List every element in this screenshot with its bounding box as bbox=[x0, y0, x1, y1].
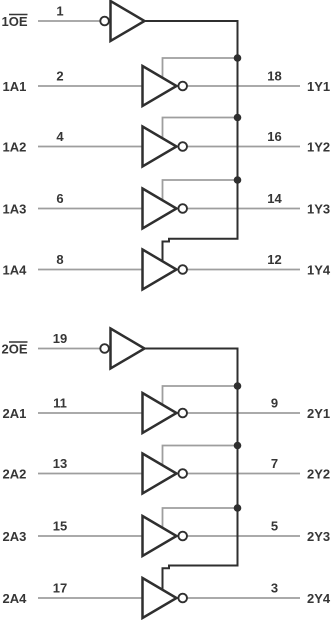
wire 1Y2 output (pin 16) bbox=[187, 146, 300, 148]
svg-text:18: 18 bbox=[267, 69, 281, 84]
svg-text:16: 16 bbox=[267, 129, 281, 144]
svg-text:19: 19 bbox=[53, 331, 67, 346]
wire 2A3 input (pin 15) bbox=[38, 535, 143, 537]
junction on enable rail (row 2A3) bbox=[234, 504, 242, 512]
wire 2A4 input (pin 17) bbox=[38, 597, 143, 599]
wire 1Y3 output (pin 14) bbox=[187, 208, 300, 210]
svg-text:1OE: 1OE bbox=[2, 14, 28, 29]
svg-text:13: 13 bbox=[53, 456, 67, 471]
svg-text:1A1: 1A1 bbox=[3, 79, 27, 94]
junction on enable rail (row 1A2) bbox=[234, 114, 242, 122]
svg-text:2A3: 2A3 bbox=[3, 529, 27, 544]
inverter gate for 2OE enable bbox=[100, 329, 144, 369]
wire 1A4 input (pin 8) bbox=[38, 269, 143, 271]
wire 2A1 input (pin 11) bbox=[38, 412, 143, 414]
svg-text:6: 6 bbox=[56, 191, 63, 206]
svg-text:2: 2 bbox=[56, 69, 63, 84]
svg-text:9: 9 bbox=[271, 396, 278, 411]
svg-text:4: 4 bbox=[56, 129, 64, 144]
svg-text:2A2: 2A2 bbox=[3, 467, 27, 482]
svg-text:11: 11 bbox=[53, 396, 67, 411]
inverting buffer 1A3 to 1Y3 bbox=[143, 189, 188, 229]
svg-text:14: 14 bbox=[267, 191, 282, 206]
svg-text:5: 5 bbox=[271, 519, 278, 534]
svg-text:7: 7 bbox=[271, 456, 278, 471]
junction on enable rail (row 1A1) bbox=[234, 54, 242, 62]
inverter gate for 1OE enable bbox=[100, 1, 144, 41]
wire 1Y1 output (pin 18) bbox=[187, 85, 300, 87]
inverting buffer 2A4 to 2Y4 bbox=[143, 578, 188, 618]
node 1OE (active-low output-enable label) bbox=[2, 14, 28, 29]
node 2OE (active-low output-enable label) bbox=[2, 342, 28, 357]
svg-text:2A1: 2A1 bbox=[3, 406, 27, 421]
wire 2A2 input (pin 13) bbox=[38, 473, 143, 475]
wire enable branch to buffer 2A3 bbox=[163, 508, 238, 528]
svg-text:2OE: 2OE bbox=[2, 342, 28, 357]
wire 1A2 input (pin 4) bbox=[38, 146, 143, 148]
svg-text:1Y4: 1Y4 bbox=[307, 263, 331, 278]
svg-text:2Y4: 2Y4 bbox=[307, 591, 331, 606]
junction on enable rail (row 2A1) bbox=[234, 382, 242, 390]
wire enable branch to buffer 2A1 bbox=[163, 386, 238, 405]
junction on enable rail (row 1A3) bbox=[234, 176, 242, 184]
svg-text:8: 8 bbox=[56, 252, 63, 267]
wire enable branch to buffer 1A3 bbox=[163, 180, 238, 201]
wire enable branch to buffer 1A2 bbox=[163, 118, 238, 139]
wire enable rail from 1OE inverter output down right side to buffer 1A4 bbox=[143, 21, 238, 262]
inverting buffer 1A1 to 1Y1 bbox=[143, 66, 188, 106]
svg-text:15: 15 bbox=[53, 519, 67, 534]
inverting buffer 1A2 to 1Y2 bbox=[143, 127, 188, 167]
svg-text:1A3: 1A3 bbox=[3, 202, 27, 217]
wire enable branch to buffer 2A2 bbox=[163, 446, 238, 466]
wire 2Y4 output (pin 3) bbox=[187, 597, 300, 599]
svg-text:3: 3 bbox=[271, 581, 278, 596]
wire 2Y2 output (pin 7) bbox=[187, 473, 300, 475]
junction on enable rail (row 2A2) bbox=[234, 442, 242, 450]
wire 2OE input (pin 19) bbox=[38, 348, 101, 350]
svg-text:1A4: 1A4 bbox=[3, 263, 28, 278]
svg-text:12: 12 bbox=[267, 252, 281, 267]
wire 1OE input (pin 1) bbox=[38, 20, 101, 22]
svg-text:1A2: 1A2 bbox=[3, 140, 27, 155]
svg-text:2Y2: 2Y2 bbox=[307, 467, 330, 482]
svg-text:1: 1 bbox=[56, 4, 63, 19]
wire enable rail from 2OE inverter output down right side to buffer 2A4 bbox=[143, 349, 238, 591]
wire 1A1 input (pin 2) bbox=[38, 85, 143, 87]
wire 2Y1 output (pin 9) bbox=[187, 412, 300, 414]
inverting buffer 2A3 to 2Y3 bbox=[143, 516, 188, 556]
svg-text:2A4: 2A4 bbox=[3, 591, 28, 606]
svg-text:2Y3: 2Y3 bbox=[307, 529, 330, 544]
svg-text:2Y1: 2Y1 bbox=[307, 406, 330, 421]
inverting buffer 2A1 to 2Y1 bbox=[143, 393, 188, 433]
wire 2Y3 output (pin 5) bbox=[187, 535, 300, 537]
svg-text:1Y1: 1Y1 bbox=[307, 79, 330, 94]
svg-text:17: 17 bbox=[53, 581, 67, 596]
svg-text:1Y2: 1Y2 bbox=[307, 140, 330, 155]
inverting buffer 2A2 to 2Y2 bbox=[143, 454, 188, 494]
inverting buffer 1A4 to 1Y4 bbox=[143, 250, 188, 290]
wire 1Y4 output (pin 12) bbox=[187, 269, 300, 271]
svg-text:1Y3: 1Y3 bbox=[307, 202, 330, 217]
wire 1A3 input (pin 6) bbox=[38, 208, 143, 210]
wire enable branch to buffer 1A1 bbox=[163, 58, 238, 78]
